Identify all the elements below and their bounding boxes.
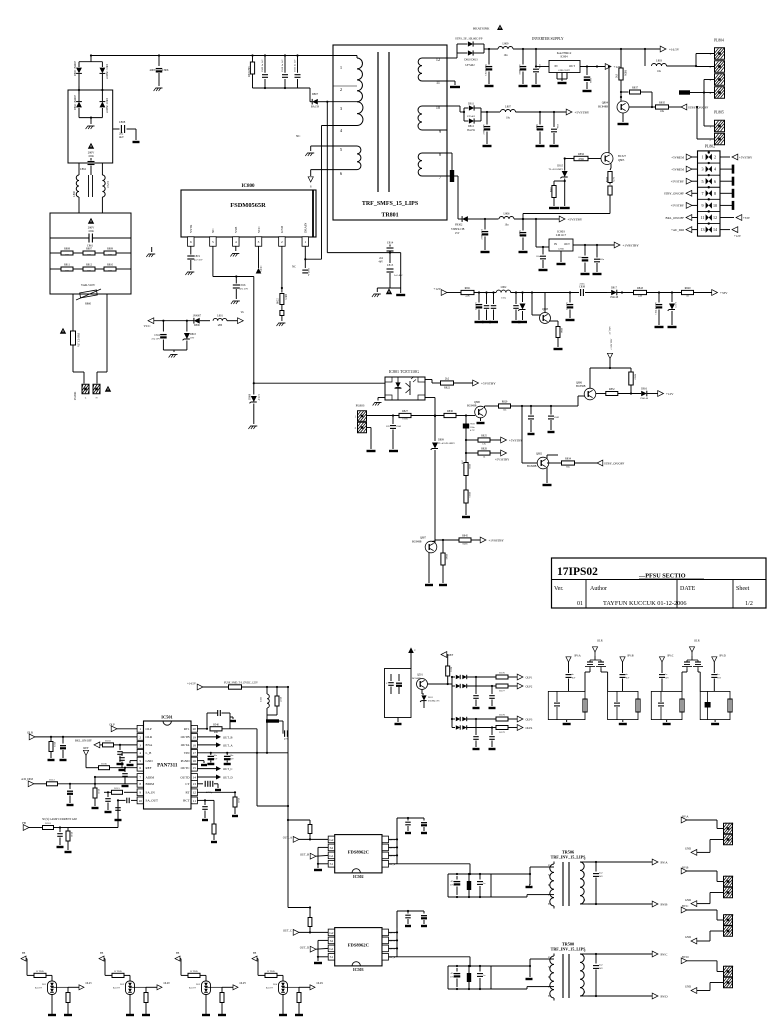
diode D553 pair row2 xyxy=(452,684,493,688)
TR801 secondary winding 8-7 xyxy=(418,152,447,180)
svg-text:OLP3: OLP3 xyxy=(240,982,247,985)
svg-text:Sheet: Sheet xyxy=(736,586,750,592)
wire +12V node to Q805 collector xyxy=(608,65,610,153)
capacitor C854 4u7 50V xyxy=(655,293,664,328)
zener D551 5V6 xyxy=(420,690,439,709)
svg-text:BA159: BA159 xyxy=(311,105,320,109)
ground R833 bar xyxy=(462,516,470,518)
svg-text:Q802: Q802 xyxy=(536,453,543,456)
svg-text:+12V: +12V xyxy=(666,392,674,396)
svg-text:F800 T3.15A: F800 T3.15A xyxy=(77,333,80,347)
warning triangle snubber xyxy=(386,288,392,294)
wire GND pin sense chain xyxy=(281,246,283,292)
wire Q802 collector xyxy=(547,455,558,483)
wire Q805 bottom link xyxy=(522,214,610,221)
capacitor C528 470n xyxy=(284,730,290,740)
wire VSB feedback bus xyxy=(213,246,254,277)
net arrow +5VSTBY rowD xyxy=(559,216,583,222)
ground PL803 bar xyxy=(367,450,376,452)
svg-text:L803: L803 xyxy=(656,59,663,63)
svg-text:R822: R822 xyxy=(444,387,451,390)
svg-text:Q805: Q805 xyxy=(618,158,625,162)
net arrow OUT_D xyxy=(197,775,232,780)
resistor R815 0R22 sense xyxy=(277,294,288,322)
resistor R816 7R5 xyxy=(248,56,255,89)
svg-text:1N4148: 1N4148 xyxy=(640,397,649,400)
svg-text:OUT_B: OUT_B xyxy=(223,735,233,739)
net arrow FB input xyxy=(22,821,42,830)
resistor R807 15R row1 xyxy=(83,248,95,257)
svg-text:2200u 6V3: 2200u 6V3 xyxy=(481,228,484,239)
svg-text:C843: C843 xyxy=(396,425,402,428)
svg-text:+12V: +12V xyxy=(434,287,442,291)
svg-text:2u7x2: 2u7x2 xyxy=(106,181,109,188)
net arrow REF small xyxy=(83,746,98,768)
svg-text:GND: GND xyxy=(685,898,691,902)
svg-text:1N4007: 1N4007 xyxy=(192,315,201,318)
resistor R830 15k xyxy=(444,410,467,418)
svg-text:11: 11 xyxy=(436,80,440,85)
wire Q807 collector xyxy=(435,539,459,544)
resistor R825 12k xyxy=(466,435,502,446)
wire Q806 collector row xyxy=(596,393,606,395)
ground snubber bar xyxy=(396,294,405,296)
supply flag VCC at IC800 xyxy=(256,266,263,274)
net arrow BV:B snubber xyxy=(620,655,634,673)
svg-text:BC856B: BC856B xyxy=(576,385,586,388)
svg-text:Author: Author xyxy=(590,586,607,592)
capacitor C544 CT xyxy=(197,781,221,794)
svg-text:RT1: RT1 xyxy=(184,727,190,731)
svg-text:GND: GND xyxy=(280,225,284,233)
svg-text:R845: R845 xyxy=(462,535,468,538)
svg-text:UF5402: UF5402 xyxy=(467,115,476,118)
svg-text:R843: R843 xyxy=(637,287,644,290)
diode D554 pair row3 xyxy=(452,717,496,721)
svg-text:R811: R811 xyxy=(64,264,70,267)
transistor Q805 BC327 xyxy=(601,153,627,165)
wire FB to SA net xyxy=(68,800,118,827)
svg-text:BV:D: BV:D xyxy=(661,995,669,999)
capacitor C578 xyxy=(473,719,480,749)
zener D819 xyxy=(518,293,527,323)
net arrow OLR input xyxy=(27,731,137,740)
ground bar at R540 xyxy=(230,717,236,721)
net arrow VCC input xyxy=(144,318,194,328)
svg-text:R835: R835 xyxy=(659,102,666,105)
svg-text:NC: NC xyxy=(296,134,300,138)
wire box2 to fuse xyxy=(72,294,74,326)
net arrow OUT_A xyxy=(197,742,233,747)
diode D806 1N4007 xyxy=(192,315,210,328)
svg-text:L807: L807 xyxy=(505,104,512,108)
svg-text:VAR-510V: VAR-510V xyxy=(81,283,96,287)
IC501 left pin row xyxy=(137,725,158,803)
svg-text:ENA: ENA xyxy=(146,743,153,747)
net arrow +1V8STBY at Q807 xyxy=(480,537,504,543)
svg-text:15: 15 xyxy=(193,766,197,770)
wire fuse to PL800 pin1 xyxy=(73,352,84,384)
svg-text:3: 3 xyxy=(701,167,703,172)
svg-text:50V: 50V xyxy=(386,425,390,428)
resistor R578 OLP3 xyxy=(496,714,518,721)
svg-text:GND: GND xyxy=(685,847,691,851)
svg-text:R827: R827 xyxy=(402,410,409,413)
svg-text:PL805: PL805 xyxy=(714,111,724,115)
title row values xyxy=(577,600,753,607)
svg-text:1000u 25V: 1000u 25V xyxy=(519,64,522,75)
svg-text:PL804: PL804 xyxy=(714,39,724,43)
diode D807 BA159 xyxy=(310,88,326,109)
wire snubber rails xyxy=(253,54,311,89)
svg-text:R576: R576 xyxy=(499,672,505,675)
capacitor C541 VIN xyxy=(207,753,217,764)
svg-text:R816 7R5: R816 7R5 xyxy=(248,66,251,77)
resistor R506 REF xyxy=(99,762,138,769)
wire Q804 emitter xyxy=(622,113,624,122)
svg-text:R527: R527 xyxy=(279,697,281,703)
resistor R522 gate xyxy=(287,819,312,841)
svg-text:+5VSTBY: +5VSTBY xyxy=(481,382,496,386)
svg-text:R838: R838 xyxy=(605,176,608,182)
connector PL804 xyxy=(710,39,725,99)
wire pin7 to rectifier row xyxy=(447,176,462,219)
wire bridge bottom bar xyxy=(79,117,102,125)
fuse F800 xyxy=(71,326,80,352)
diode D813 xyxy=(457,44,484,67)
wire PL803 pin2 ground xyxy=(367,428,372,450)
resistor R832 xyxy=(606,388,641,395)
svg-text:R512: R512 xyxy=(49,779,55,782)
net arrow OUT_A at IC502 xyxy=(283,836,328,843)
IC502 pin boxes xyxy=(328,836,396,867)
capacitor C831 IC803 in xyxy=(536,247,548,270)
svg-text:C/2-V: C/2-V xyxy=(257,394,260,401)
svg-text:C808: C808 xyxy=(119,120,126,124)
svg-text:NC: NC xyxy=(292,265,296,269)
svg-text:BC848B: BC848B xyxy=(527,465,537,468)
net arrow STBY_ON/OFF rowA xyxy=(681,104,708,110)
OLP feedback cell 2 with dual diode D551 and OLP2 arrow xyxy=(99,952,170,1015)
TR500 strap and ground xyxy=(529,965,531,977)
svg-text:R578: R578 xyxy=(499,714,505,717)
capacitor C835 xyxy=(475,293,484,323)
resistor R834 85k xyxy=(547,458,597,469)
svg-text:15R: 15R xyxy=(65,269,69,272)
svg-text:OLP2: OLP2 xyxy=(164,982,171,985)
svg-text:TL-431/KAMP2: TL-431/KAMP2 xyxy=(438,442,455,445)
svg-text:OUT_C: OUT_C xyxy=(283,929,292,933)
mosfet Q503 dual xyxy=(682,656,703,669)
svg-text:G2: G2 xyxy=(329,838,333,842)
wire rail +16.5V xyxy=(513,48,661,50)
svg-text:8k06: 8k06 xyxy=(463,542,469,545)
svg-text:R503: R503 xyxy=(105,740,111,743)
wire TR506 out top BV:A xyxy=(586,861,653,863)
warning triangle HEATSINK xyxy=(473,25,503,31)
svg-text:DATE: DATE xyxy=(680,586,696,592)
net arrow OUT_C xyxy=(197,766,232,771)
net flag OLR at Q502 xyxy=(592,639,602,657)
svg-text:4.7V: 4.7V xyxy=(470,429,475,432)
rc box 1 with C565 R570 xyxy=(548,691,587,724)
net arrow BV:A out xyxy=(652,859,668,865)
svg-text:ADJ_5V: ADJ_5V xyxy=(608,326,611,335)
svg-text:STBY_ON/OFF: STBY_ON/OFF xyxy=(604,462,624,466)
svg-text:D806: D806 xyxy=(194,324,200,327)
wire Q806 emitter node xyxy=(590,367,631,389)
ground IC803 xyxy=(557,263,566,265)
wire loop to VIN rail xyxy=(266,715,277,754)
svg-text:BKL_ON/OFF: BKL_ON/OFF xyxy=(666,216,685,220)
svg-text:FB: FB xyxy=(253,952,256,955)
wire cluster to TR500 xyxy=(491,959,538,989)
net arrow +5VSTBY rowB xyxy=(566,109,590,115)
warning triangle 280V box2 xyxy=(88,218,95,233)
resistor R515 SA_IN xyxy=(104,787,137,794)
resistor R576 OLP1 xyxy=(496,672,518,679)
capacitor C542 VIN xyxy=(224,753,234,764)
wire IC503 sources xyxy=(317,940,328,961)
rc box 2 with C566 R571 xyxy=(608,691,641,724)
svg-text:BC848B: BC848B xyxy=(598,105,608,109)
wire PL803 pin1 row xyxy=(367,414,400,416)
svg-text:6: 6 xyxy=(714,179,716,184)
svg-text:OLP: OLP xyxy=(146,727,152,731)
svg-text:2: 2 xyxy=(340,87,342,92)
svg-text:FB: FB xyxy=(176,952,179,955)
svg-text:13: 13 xyxy=(193,782,197,786)
svg-text:C809 1n 1kV: C809 1n 1kV xyxy=(261,59,264,72)
wire vertical into Q807 xyxy=(431,541,433,543)
svg-text:2n2 4kV: 2n2 4kV xyxy=(394,274,403,277)
resistor R512 ADIM xyxy=(47,779,138,786)
resistor R577 OLP2 xyxy=(492,684,518,692)
capacitor C855 xyxy=(512,293,521,323)
svg-text:Vo: Vo xyxy=(241,310,245,314)
inductor L803 xyxy=(645,49,696,73)
svg-text:BA/277: BA/277 xyxy=(35,986,43,989)
ground TR506 primary xyxy=(526,885,533,887)
svg-text:OLP3: OLP3 xyxy=(526,717,533,721)
diode D812 BA159 xyxy=(464,112,481,132)
transistor Q806 BC856B xyxy=(576,382,596,400)
regulator IC804 KA278R12 xyxy=(549,51,580,73)
wire vertical feedback bus xyxy=(253,277,255,385)
svg-text:FDS8962C: FDS8962C xyxy=(348,943,369,948)
wire caps cluster rails lower xyxy=(448,965,491,990)
svg-text:C814: C814 xyxy=(387,241,394,245)
svg-text:3kV: 3kV xyxy=(599,968,603,970)
svg-text:BA/277: BA/277 xyxy=(189,986,197,989)
wire D814 to L806 xyxy=(480,218,499,220)
svg-text:BV:A: BV:A xyxy=(575,655,581,658)
svg-text:G1: G1 xyxy=(329,947,333,951)
svg-text:R540: R540 xyxy=(213,724,219,727)
resistor R544 BCT2 xyxy=(204,799,217,842)
capacitor C810 1n 1kV xyxy=(281,59,288,88)
svg-text:IC502: IC502 xyxy=(353,874,364,879)
capacitor C531 dark xyxy=(467,874,471,897)
wire snubber ground split xyxy=(377,288,400,292)
capacitor C817 NC xyxy=(292,259,310,277)
wire main VIN bus vertical xyxy=(287,687,289,908)
svg-text:R552: R552 xyxy=(450,667,452,672)
wire Q501 to diode rows xyxy=(428,676,454,728)
svg-text:BC848B: BC848B xyxy=(412,540,422,543)
capacitor C536 xyxy=(477,965,486,990)
svg-text:220n: 220n xyxy=(580,283,586,286)
net arrow BV:D out xyxy=(652,993,668,999)
svg-text:IC503: IC503 xyxy=(353,967,364,972)
svg-text:+5VSTBY: +5VSTBY xyxy=(568,218,583,222)
svg-text:C838: C838 xyxy=(579,286,586,289)
svg-text:OUT_D: OUT_D xyxy=(223,775,233,779)
svg-text:R810: R810 xyxy=(107,264,114,267)
svg-text:R840: R840 xyxy=(685,287,692,290)
OLP feedback cell 3 with dual diode D552 and OLP3 arrow xyxy=(175,952,246,1015)
capacitor C849 at R829 node2 xyxy=(531,405,560,432)
resistor R841 below Q808 xyxy=(549,321,563,349)
wire PL805 straps xyxy=(696,106,715,139)
svg-text:OLR: OLR xyxy=(694,639,700,643)
svg-text:470R: 470R xyxy=(578,158,584,161)
resistor R513 divider xyxy=(92,784,99,808)
capacitor C828 100n xyxy=(550,112,559,146)
resistor R845 xyxy=(459,535,481,546)
svg-text:R828: R828 xyxy=(481,448,487,451)
svg-text:17IPS02: 17IPS02 xyxy=(557,566,598,578)
svg-text:1/2: 1/2 xyxy=(745,601,753,607)
wire Q807 emitter xyxy=(428,553,430,584)
PL802 right +33V xyxy=(720,215,751,221)
capacitor C552 in box xyxy=(396,674,402,694)
connector PL504 xyxy=(724,965,734,988)
svg-text:+5V3STBY: +5V3STBY xyxy=(495,458,510,462)
wire pin11 to ground xyxy=(447,81,455,85)
line filter transformer L860 xyxy=(72,175,109,213)
TR506 primary winding xyxy=(538,862,554,909)
net arrow BV:A to PL505 xyxy=(681,815,723,829)
diode D801 1N4007 xyxy=(100,62,109,90)
capacitor C826 2200u 10V xyxy=(483,112,492,146)
svg-text:50 (S) LAMP CURRENT ADJ: 50 (S) LAMP CURRENT ADJ xyxy=(42,817,78,821)
capacitor C816 47n 50V xyxy=(231,277,248,305)
svg-text:VCC: VCC xyxy=(257,226,261,233)
svg-text:R832: R832 xyxy=(609,388,615,391)
svg-text:12: 12 xyxy=(436,57,440,62)
svg-text:10: 10 xyxy=(436,105,440,110)
svg-text:IC800: IC800 xyxy=(241,184,255,189)
supply triangle Q501 xyxy=(408,647,416,668)
svg-text:IC801 TCET110G: IC801 TCET110G xyxy=(389,369,419,374)
svg-text:OLP4: OLP4 xyxy=(526,726,533,730)
svg-text:OUTB: OUTB xyxy=(181,735,191,739)
ground opto pin3 xyxy=(373,398,385,406)
svg-text:VCC: VCC xyxy=(144,324,152,328)
svg-text:R815: R815 xyxy=(284,294,287,300)
inductor L802 xyxy=(496,286,528,299)
svg-text:Q807: Q807 xyxy=(420,537,427,540)
svg-text:S2: S2 xyxy=(330,939,334,943)
svg-text:R837: R837 xyxy=(632,87,639,90)
TR801 secondary winding 10-9 xyxy=(418,105,447,134)
net arrow OLP3 xyxy=(517,716,533,722)
net arrow BV:B out xyxy=(652,901,667,907)
inductor L807 10u xyxy=(501,104,516,119)
svg-text:Q800: Q800 xyxy=(474,401,481,404)
svg-text:OUTA: OUTA xyxy=(181,743,190,747)
svg-text:B-ZX84 5V6: B-ZX84 5V6 xyxy=(428,700,439,702)
svg-text:1000u: 1000u xyxy=(536,123,539,130)
svg-text:IN: IN xyxy=(554,242,557,246)
svg-text:D802 1N4007: D802 1N4007 xyxy=(74,95,77,110)
IC IC502 FDS8962C body xyxy=(335,835,382,880)
net arrow BV:C snubber xyxy=(659,655,673,673)
net arrow Vo xyxy=(238,310,245,324)
svg-text:47u 50V: 47u 50V xyxy=(567,302,569,310)
capacitor C827 1000u xyxy=(536,112,545,146)
capacitor C809 1n 1kV xyxy=(261,59,268,88)
transistor Q807 BC848B xyxy=(412,537,437,553)
svg-text:C862: C862 xyxy=(80,167,87,171)
wire IC503 drains to rail xyxy=(389,911,399,957)
svg-text:+5VSTBY: +5VSTBY xyxy=(671,204,685,208)
TR801 primary winding pins 1-3 xyxy=(326,56,362,112)
svg-text:25V: 25V xyxy=(230,758,234,760)
resistor R822 2k2 xyxy=(425,377,473,390)
wire branch to IC803 xyxy=(536,219,549,248)
resistor R543 BCT xyxy=(197,800,208,820)
capacitor C836 xyxy=(482,293,491,323)
svg-text:400V: 400V xyxy=(149,68,156,72)
net arrow OUT_C at IC503 xyxy=(283,929,328,936)
svg-text:TR801: TR801 xyxy=(381,213,398,219)
svg-text:15R: 15R xyxy=(65,253,69,256)
title block frame xyxy=(552,558,767,608)
capacitor C833 IC803 out2 xyxy=(593,245,605,274)
svg-text:BV:A: BV:A xyxy=(661,861,669,865)
svg-text:C820 1000u: C820 1000u xyxy=(485,63,488,75)
capacitor C562 1n 1kV xyxy=(620,674,630,691)
svg-text:HEATSINK: HEATSINK xyxy=(473,27,490,31)
title row headers xyxy=(554,586,750,592)
svg-text:R TBD: R TBD xyxy=(36,970,43,973)
svg-text:REF: REF xyxy=(448,653,454,657)
filter box 2 xyxy=(50,213,131,294)
svg-text:10: 10 xyxy=(713,203,717,208)
svg-text:19: 19 xyxy=(193,735,197,739)
capacitor C564 1n 1kV xyxy=(711,674,721,691)
svg-text:18V: 18V xyxy=(190,337,194,340)
wire snubber right ground xyxy=(400,253,402,293)
wire IC803 out xyxy=(573,244,614,246)
svg-text:68R: 68R xyxy=(214,731,218,734)
ground Q501 box xyxy=(395,718,402,725)
svg-text:47n 50V: 47n 50V xyxy=(240,288,249,291)
resistor R828 1k xyxy=(465,440,502,463)
svg-text:R501: R501 xyxy=(53,742,55,747)
resistor R827 100R xyxy=(399,410,444,421)
capacitor C503 ENA xyxy=(117,745,124,764)
capacitor C518 FB xyxy=(57,828,64,848)
resistor R540 xyxy=(210,724,257,735)
inductor L504 loop xyxy=(260,687,270,715)
capacitor C843 at PL803 xyxy=(386,416,402,452)
svg-text:BV:C: BV:C xyxy=(668,655,674,658)
svg-text:BC848B: BC848B xyxy=(412,677,421,680)
optocoupler IC801 TCET110G xyxy=(385,369,425,400)
